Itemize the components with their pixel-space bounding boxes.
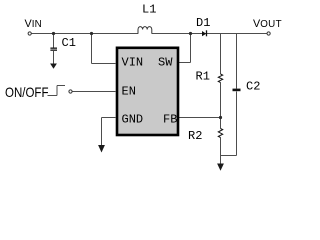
svg-text:L1: L1 [142, 3, 156, 17]
svg-text:VIN: VIN [122, 56, 144, 70]
svg-text:FB: FB [163, 112, 177, 126]
svg-text:EN: EN [122, 85, 136, 99]
svg-text:C1: C1 [62, 36, 76, 50]
svg-text:C2: C2 [246, 80, 260, 94]
svg-text:SW: SW [158, 56, 173, 70]
svg-text:R2: R2 [188, 129, 202, 143]
svg-text:D1: D1 [196, 16, 210, 30]
svg-text:R1: R1 [196, 70, 210, 84]
svg-text:GND: GND [122, 112, 144, 126]
svg-text:ON/OFF: ON/OFF [5, 85, 49, 100]
svg-text:VIN: VIN [25, 18, 42, 30]
svg-text:VOUT: VOUT [253, 18, 282, 30]
